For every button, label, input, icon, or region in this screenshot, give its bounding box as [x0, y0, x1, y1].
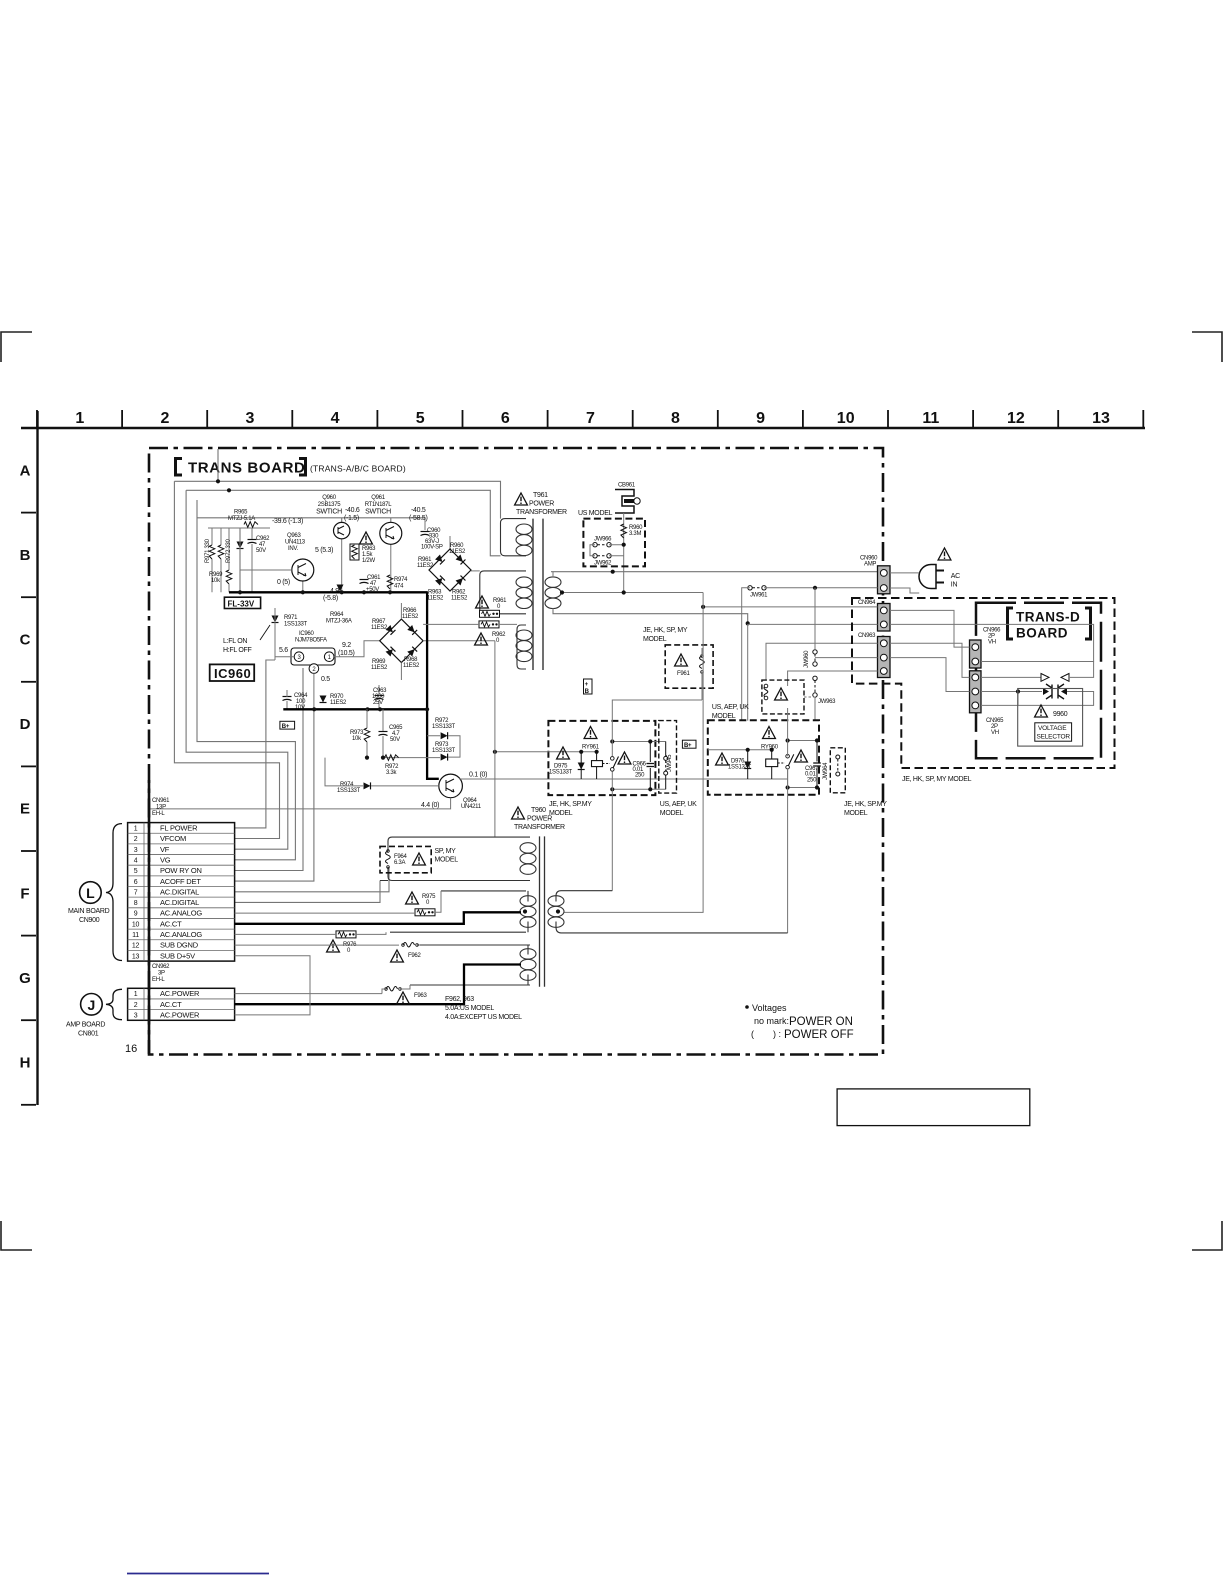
svg-text:TRANSFORMER: TRANSFORMER: [516, 509, 567, 516]
relay switch RY960: [786, 754, 790, 758]
svg-text:4.0A:EXCEPT US MODEL: 4.0A:EXCEPT US MODEL: [445, 1014, 522, 1021]
crop mark bottom-right: [1192, 1221, 1222, 1250]
svg-text:TRANS BOARD: TRANS BOARD: [188, 460, 305, 477]
junction top outer: [216, 479, 220, 483]
svg-text:R964: R964: [330, 612, 344, 618]
svg-text:B+: B+: [282, 724, 290, 730]
svg-text:11: 11: [922, 410, 939, 427]
wire Q961 drop: [390, 518, 392, 523]
F961 dashed box: [665, 645, 713, 688]
boxed label B+ right: [682, 740, 696, 748]
wire jumpers left: [590, 545, 595, 556]
warning D976: [716, 753, 729, 765]
diode R970 11ES2: [320, 696, 327, 703]
T961 primary coil group 3: [516, 630, 532, 662]
svg-text:(-58.5): (-58.5): [409, 515, 428, 522]
T960 primary coil group1: [520, 843, 536, 875]
wire R971 leads: [211, 528, 213, 592]
svg-text:JW945: JW945: [667, 754, 673, 772]
heading bracket right: [299, 459, 306, 476]
svg-text:EH-L: EH-L: [152, 977, 165, 983]
resistor R965: [244, 522, 258, 528]
capacitor C962: [248, 540, 257, 544]
ruler tick top 4: [291, 410, 293, 427]
svg-text:MODEL: MODEL: [844, 810, 868, 817]
svg-text:3: 3: [246, 410, 255, 427]
brace J: [106, 989, 122, 1019]
wire relay1 top bus: [612, 741, 665, 743]
svg-text:TRANSFORMER: TRANSFORMER: [514, 824, 565, 831]
wire Q964 emitter right: [459, 778, 788, 780]
svg-text:JW966: JW966: [594, 537, 612, 543]
resistor R960 3.3M: [621, 524, 627, 538]
wire T961 secondary top lead: [551, 571, 878, 573]
T960 primary coil group3: [520, 949, 536, 981]
wire bus to connector row 4: [197, 500, 295, 860]
svg-text:12: 12: [132, 943, 140, 950]
svg-text:MODEL: MODEL: [712, 713, 736, 720]
wire bus to connector row 8 to T960 loop: [235, 881, 380, 903]
svg-text:11ES2: 11ES2: [371, 665, 388, 671]
svg-text:NJM78O5FA: NJM78O5FA: [295, 638, 327, 644]
svg-text:VFCOM: VFCOM: [160, 834, 186, 843]
heading bracket TRANS-D left: [1008, 608, 1014, 639]
svg-text:CN963: CN963: [858, 633, 876, 639]
svg-text:0.5: 0.5: [321, 676, 330, 683]
T960 primary coil group2: [520, 896, 536, 928]
wire Q963 emitter to bus: [302, 581, 304, 592]
svg-text:R965: R965: [234, 510, 248, 516]
svg-text:5: 5: [134, 868, 138, 875]
relay box US AEP UK dashed: [708, 720, 819, 794]
warning R975: [406, 892, 419, 904]
ruler tick left 3: [21, 681, 36, 683]
jumper JW964 circles: [836, 755, 840, 759]
svg-text:CN961: CN961: [152, 798, 170, 804]
JE HK SP MY MODEL outer dashed boundary: [852, 598, 1115, 768]
wire JW963 right link: [804, 696, 815, 698]
warning F964: [413, 853, 426, 865]
fuse F964: [386, 850, 391, 869]
svg-text:FL-33V: FL-33V: [228, 599, 255, 608]
svg-text:MODEL: MODEL: [643, 636, 667, 643]
warning R961: [476, 596, 489, 608]
wire D972 D973: [383, 736, 460, 758]
svg-text:MODEL: MODEL: [549, 810, 573, 817]
diode D973: [441, 754, 448, 761]
wire Q960 drop: [341, 518, 343, 523]
svg-text:MAIN BOARD: MAIN BOARD: [68, 908, 110, 915]
warning T961: [515, 493, 528, 505]
wire CN964 pin2 left: [748, 624, 878, 720]
warning JW963: [775, 688, 788, 700]
wire long vertical from bridge2: [494, 641, 496, 837]
svg-text:AC.CT: AC.CT: [160, 919, 182, 928]
svg-text:VG: VG: [160, 855, 171, 864]
relay coil RY960: [771, 750, 773, 779]
ruler tick left 2: [21, 596, 36, 598]
voltage selector box: [1018, 689, 1083, 747]
svg-text:3.3M: 3.3M: [629, 531, 641, 537]
wire bus to connector row 1 from D971: [235, 660, 275, 828]
wire T961 secondary centre tap: [560, 592, 703, 594]
svg-text:MTZJ-36A: MTZJ-36A: [326, 619, 352, 625]
wire arrow right side: [1069, 662, 1094, 678]
svg-text:MTZJ-5.1A: MTZJ-5.1A: [228, 516, 255, 522]
SP MY MODEL dashed box F964: [380, 846, 431, 872]
svg-text:9960: 9960: [1053, 711, 1068, 718]
svg-text:Voltages: Voltages: [752, 1003, 787, 1013]
svg-text:US, AEP, UK: US, AEP, UK: [712, 704, 749, 711]
wire bridge2 right to long vertical: [423, 640, 495, 642]
ruler tick top 14: [1142, 410, 1144, 427]
diode D976: [747, 750, 749, 779]
fuse JW963: [764, 686, 768, 698]
wire Q964 base left through D974: [325, 758, 439, 786]
capacitor C961: [360, 580, 369, 584]
svg-text:VF: VF: [160, 845, 170, 854]
svg-text:2: 2: [134, 836, 138, 843]
empty footer rectangle: [837, 1089, 1030, 1126]
relay coil RY961: [596, 752, 598, 779]
svg-text:JW963: JW963: [818, 699, 836, 705]
heading bracket TRANS-D right: [1085, 608, 1091, 639]
svg-text:G: G: [19, 970, 31, 987]
warning C966: [618, 752, 631, 764]
warning F962: [391, 950, 404, 962]
wire R972 leads: [220, 528, 222, 592]
warning F961: [675, 654, 688, 666]
resistor R974: [387, 575, 393, 589]
svg-text:AC.CT: AC.CT: [160, 1000, 182, 1009]
diode D972: [441, 732, 448, 739]
ruler tick left 7: [21, 1019, 36, 1021]
wire row12 to F962: [235, 944, 420, 946]
ruler tick top 12: [972, 410, 974, 427]
wire CB961 down: [623, 513, 625, 593]
boxed label B+ vertical: [584, 679, 593, 694]
wire bridge2 bottom: [400, 663, 402, 681]
ruler tick top 1: [36, 410, 38, 427]
diode D975: [580, 752, 582, 779]
svg-text:5: 5: [416, 410, 425, 427]
JW964 dashed box: [830, 748, 845, 793]
wire left column: [228, 528, 230, 570]
circle J: [81, 994, 103, 1016]
boxed label B+ mid: [280, 721, 295, 729]
capacitor C960: [421, 532, 430, 536]
svg-text:AC.ANALOG: AC.ANALOG: [160, 909, 202, 918]
svg-text:(TRANS-A/B/C BOARD): (TRANS-A/B/C BOARD): [310, 464, 406, 474]
heavy vertical to Q964: [427, 592, 439, 779]
bridge rectifier D960-D963: [429, 549, 471, 591]
svg-text:CN962: CN962: [152, 964, 170, 970]
warning C967: [795, 750, 808, 762]
relay box JE HK SP MY dashed: [548, 721, 655, 795]
svg-text:3P: 3P: [158, 971, 165, 977]
wire F963 right: [400, 985, 410, 989]
fusible resistor R962: [479, 621, 499, 628]
warning D975: [557, 747, 570, 759]
svg-text:POWER OFF: POWER OFF: [784, 1029, 854, 1041]
svg-text:10k: 10k: [352, 736, 362, 742]
selector plug contact left: [1046, 684, 1052, 699]
transistor Q960: [334, 522, 350, 538]
warning R962: [475, 633, 488, 645]
transistor Q961: [380, 522, 402, 544]
svg-text:IC960: IC960: [299, 631, 314, 637]
svg-text:AMP BOARD: AMP BOARD: [66, 1022, 105, 1029]
warning RY960: [763, 727, 776, 739]
warning RY961: [584, 727, 597, 739]
svg-text:POW RY ON: POW RY ON: [160, 866, 202, 875]
ruler tick top 7: [547, 410, 549, 427]
svg-text:AC.POWER: AC.POWER: [160, 1011, 200, 1020]
svg-text:0.1 (0): 0.1 (0): [469, 772, 487, 779]
connector CN964: [878, 604, 891, 632]
jumper JW962: [593, 554, 611, 558]
fusible resistor R975: [415, 909, 435, 916]
svg-text:FL POWER: FL POWER: [160, 824, 198, 833]
wire left column top node: [208, 527, 270, 529]
svg-text:MODEL: MODEL: [435, 857, 459, 864]
T960 primary centre tap: [523, 909, 527, 913]
svg-text:1/2W: 1/2W: [362, 558, 375, 564]
fuse F961: [700, 655, 705, 674]
svg-text:0 (5): 0 (5): [277, 579, 290, 586]
svg-text:F961: F961: [677, 671, 690, 677]
svg-text:JE, HK, SP, MY: JE, HK, SP, MY: [643, 627, 688, 634]
wire zener vertical: [239, 528, 241, 592]
resistor R969: [226, 570, 232, 584]
wire relay2 top bus: [788, 740, 817, 742]
svg-text:RY961: RY961: [582, 745, 600, 751]
svg-text:R961: R961: [493, 598, 507, 604]
relay switch RY961: [611, 757, 615, 761]
svg-text:no mark:: no mark:: [754, 1016, 789, 1026]
wire CN963 pin3 through JW963 to switch: [787, 708, 789, 788]
svg-text:16: 16: [125, 1043, 137, 1055]
warning F963: [397, 992, 410, 1004]
junction top inner: [227, 488, 231, 492]
connector table CN962: [128, 988, 235, 1020]
connector CN966: [970, 640, 982, 668]
fuse F962: [402, 943, 419, 948]
wire CN964 pin1 left: [703, 606, 877, 608]
svg-text:6: 6: [134, 879, 138, 886]
relay link dashed 2: [778, 762, 785, 764]
jumper JW966: [593, 543, 611, 547]
wire IC960 gnd: [313, 673, 315, 709]
ruler tick top 9: [717, 410, 719, 427]
boxed label FL-33V: [224, 597, 260, 608]
connector CN960: [878, 566, 891, 594]
svg-text:INV.: INV.: [288, 546, 299, 552]
svg-text:11ES2: 11ES2: [402, 614, 419, 620]
wire Q961 collector to bus: [390, 544, 392, 592]
svg-text:A: A: [20, 462, 31, 479]
wire CN964 pin2 to CN966 pin2 via right: [890, 624, 1094, 661]
svg-text:5.0A:US MODEL: 5.0A:US MODEL: [445, 1005, 494, 1012]
svg-text:1: 1: [134, 991, 138, 998]
fusible resistor R961: [480, 610, 500, 617]
svg-text:JW962: JW962: [594, 561, 612, 567]
wire R962 row: [423, 623, 517, 625]
svg-text:JE, HK, SP.MY: JE, HK, SP.MY: [844, 801, 887, 808]
svg-text:(-1.5): (-1.5): [344, 515, 359, 522]
warning R976: [327, 940, 340, 952]
svg-text:) :: ) :: [773, 1029, 781, 1039]
heavy ground bus: [283, 708, 427, 710]
wire F961 top/bottom: [701, 648, 703, 656]
svg-text:4: 4: [331, 410, 340, 427]
blue footer line: [127, 1573, 269, 1575]
svg-text:1: 1: [75, 410, 84, 427]
svg-text:Q961: Q961: [371, 495, 385, 501]
svg-text:L: L: [86, 885, 95, 901]
wire long vertical centre tap T961 to T960: [564, 593, 703, 913]
JW963 dashed box: [762, 680, 804, 714]
heavy left board edge: [148, 780, 151, 1054]
capacitor C964: [283, 697, 292, 701]
svg-text:1SS133T: 1SS133T: [728, 765, 752, 771]
svg-text:9.2: 9.2: [342, 642, 351, 649]
svg-text:3: 3: [134, 1013, 138, 1020]
svg-text:SELECTOR: SELECTOR: [1037, 734, 1071, 741]
wire plug right side: [981, 692, 1094, 706]
svg-text:-39.6 (-1.3): -39.6 (-1.3): [272, 518, 303, 525]
selector plug contact right: [1058, 684, 1064, 699]
svg-text:C: C: [20, 632, 31, 649]
svg-text:F: F: [20, 885, 29, 902]
wire relay1 bottom bus: [612, 788, 665, 790]
svg-text:9: 9: [756, 410, 765, 427]
connector table CN961: [128, 823, 235, 962]
svg-text:6: 6: [501, 410, 510, 427]
svg-text:US, AEP, UK: US, AEP, UK: [660, 801, 697, 808]
IC960 regulator symbol: [291, 648, 335, 665]
circle L: [80, 882, 102, 904]
svg-text:6.3A: 6.3A: [394, 860, 405, 866]
wire bus to connector row 5: [235, 668, 303, 871]
pointer line for FL note: [260, 625, 270, 640]
T961 primary coil group 1: [516, 524, 532, 556]
boxed label VOLTAGE SELECTOR: [1035, 723, 1072, 741]
transistor Q963: [292, 559, 314, 581]
svg-text:L:FL ON: L:FL ON: [223, 638, 247, 645]
wire IC960 in: [275, 656, 294, 658]
wire long vertical F961 to T960: [612, 700, 702, 756]
wire junction US model to AC line: [611, 570, 615, 574]
wire stair CN964 pin1 to CN966 pin1: [890, 610, 970, 647]
svg-text:SWTICH: SWTICH: [316, 509, 342, 516]
svg-text:AC.POWER: AC.POWER: [160, 989, 200, 998]
warning near R963: [360, 532, 373, 544]
wire JW961 line: [742, 588, 878, 721]
ruler tick top 2: [121, 410, 123, 427]
svg-text:11ES2: 11ES2: [330, 700, 347, 706]
wire CN963 pin1 to selector arrows: [890, 643, 1041, 677]
wire CN963 pin2 to selector plug: [890, 658, 1042, 692]
transformer T960 core: [539, 836, 541, 986]
heading bracket left: [176, 459, 183, 476]
svg-text:474: 474: [394, 584, 404, 590]
svg-text:10: 10: [132, 921, 140, 928]
heavy wire J2 AC.CT: [235, 965, 521, 1005]
svg-text:11ES2: 11ES2: [451, 596, 468, 602]
connector CN963: [878, 637, 891, 678]
JW945 dashed box: [659, 721, 677, 794]
svg-text:IC960: IC960: [214, 666, 251, 681]
svg-text:B+: B+: [684, 743, 692, 749]
svg-text:5.6: 5.6: [279, 647, 288, 654]
svg-text:10k: 10k: [211, 578, 221, 584]
svg-text:11ES2: 11ES2: [371, 625, 388, 631]
svg-text:F962: F962: [408, 953, 421, 959]
svg-text:(10.5): (10.5): [338, 650, 355, 657]
svg-text:AC: AC: [951, 573, 960, 580]
resistor R963 boxed: [350, 544, 359, 560]
wire J3 right: [235, 965, 310, 1015]
svg-text:100V-SP: 100V-SP: [421, 545, 443, 551]
svg-text:-40.5: -40.5: [411, 507, 426, 514]
svg-text:SUB DGND: SUB DGND: [160, 941, 199, 950]
wire bus to connector row 6 from IC960 pin2: [235, 709, 314, 881]
svg-text:250: 250: [635, 773, 645, 779]
TRANS-D inner board box: [976, 603, 1101, 759]
svg-text:MODEL: MODEL: [660, 810, 684, 817]
svg-text:VH: VH: [988, 640, 996, 646]
fuse F963: [385, 987, 402, 992]
svg-text:VOLTAGE: VOLTAGE: [1038, 725, 1067, 732]
svg-text:8: 8: [671, 410, 680, 427]
svg-text:CB961: CB961: [618, 483, 636, 489]
svg-text:SP, MY: SP, MY: [435, 848, 457, 855]
svg-text:F962, 963: F962, 963: [445, 996, 474, 1003]
wire collector rail: [197, 517, 425, 519]
svg-text:POWER: POWER: [529, 501, 554, 508]
svg-text:Q963: Q963: [287, 533, 301, 539]
wire row11: [235, 932, 386, 934]
resistor R973: [364, 728, 370, 742]
wire bridge1 to T961 loop: [471, 570, 480, 572]
svg-text:4: 4: [134, 857, 138, 864]
ruler tick top 11: [887, 410, 889, 427]
wire relay1 mid bus: [495, 751, 597, 753]
selector arrow right: [1041, 674, 1049, 682]
svg-text:EH-L: EH-L: [152, 811, 165, 817]
ruler tick top 6: [462, 410, 464, 427]
svg-text:10: 10: [837, 410, 855, 427]
wire CN963 pin3 left: [788, 671, 878, 686]
jumper JW960 vertical: [813, 650, 817, 654]
svg-text:VH: VH: [991, 730, 999, 736]
wire C960 drop: [424, 518, 426, 530]
ruler tick left 1: [21, 512, 36, 514]
T961 secondary coil: [545, 577, 561, 609]
svg-text:13: 13: [1092, 410, 1110, 427]
svg-text:ACOFF DET: ACOFF DET: [160, 877, 201, 886]
svg-text:D: D: [20, 716, 31, 733]
svg-text:7: 7: [134, 889, 138, 896]
wire long vertical right to T960 bottom: [787, 769, 789, 933]
svg-text:1SS133T: 1SS133T: [284, 622, 308, 628]
ruler tick top 13: [1057, 410, 1059, 427]
svg-text:-40.6: -40.6: [345, 507, 360, 514]
svg-text:H:FL OFF: H:FL OFF: [223, 647, 251, 654]
svg-text:SUB D+5V: SUB D+5V: [160, 951, 195, 960]
svg-text:JW964: JW964: [823, 762, 829, 780]
